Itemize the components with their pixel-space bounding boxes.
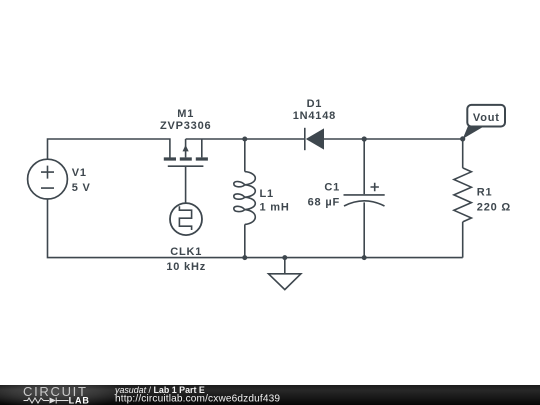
svg-text:ZVP3306: ZVP3306 — [160, 120, 211, 132]
svg-text:CLK1: CLK1 — [170, 246, 202, 258]
resistor R1 — [454, 139, 472, 258]
svg-text:5 V: 5 V — [72, 182, 91, 194]
svg-text:10 kHz: 10 kHz — [166, 261, 206, 273]
svg-text:Vout: Vout — [473, 112, 500, 124]
svg-text:C1: C1 — [324, 182, 340, 194]
capacitor C1 — [344, 139, 385, 258]
inductor L1 — [234, 139, 255, 258]
node bottom ground junction dot — [282, 255, 287, 260]
Vout flag — [463, 105, 505, 139]
svg-text:LAB: LAB — [69, 395, 90, 405]
svg-text:http://circuitlab.com/cxwe6dzd: http://circuitlab.com/cxwe6dzduf439 — [115, 394, 280, 405]
node bottom C1 junction dot — [362, 255, 367, 260]
voltage source V1 — [28, 159, 68, 199]
diode D1 — [305, 128, 324, 150]
wire top rail left (V1 to M1 drain) — [48, 139, 170, 159]
wire V1 bottom + bottom rail — [48, 199, 463, 258]
svg-text:1 mH: 1 mH — [260, 202, 290, 214]
ground — [269, 258, 301, 290]
wire D1 anode to Vout node — [324, 138, 463, 140]
svg-text:V1: V1 — [72, 167, 87, 179]
wire M1 gate to CLK1 — [185, 166, 187, 203]
footer bar — [0, 385, 540, 405]
svg-text:M1: M1 — [177, 108, 194, 120]
clock source CLK1 — [170, 203, 202, 235]
wire node A rail (M1 source to D1 cathode) — [186, 138, 305, 140]
svg-text:D1: D1 — [307, 98, 323, 110]
node A junction dot — [242, 137, 247, 142]
node Vout junction dot — [460, 136, 465, 141]
svg-text:R1: R1 — [477, 187, 493, 199]
transistor M1 (PMOS) — [164, 139, 208, 166]
svg-text:220 Ω: 220 Ω — [477, 202, 511, 214]
svg-text:68 µF: 68 µF — [308, 197, 340, 209]
svg-text:1N4148: 1N4148 — [293, 110, 336, 122]
node bottom L1 junction dot — [242, 255, 247, 260]
svg-text:L1: L1 — [260, 188, 274, 200]
CircuitLab logo squiggle (resistor + diode) — [24, 398, 69, 404]
node B junction dot — [362, 136, 367, 141]
